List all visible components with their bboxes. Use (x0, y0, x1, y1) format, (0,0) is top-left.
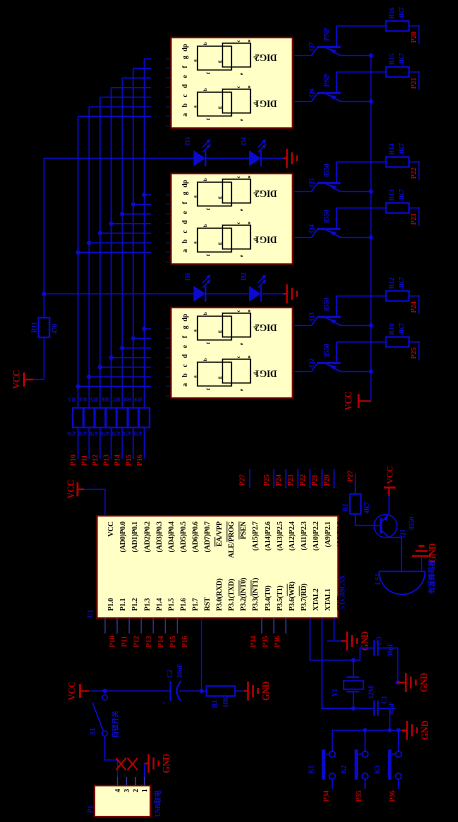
svg-text:GND: GND (335, 595, 344, 611)
power symbol VCC (input) (67, 682, 89, 701)
wire collector Q7 to display common (296, 55, 312, 57)
switch S1 self-lock (89, 695, 107, 736)
wire RST to reset node (201, 618, 203, 691)
transistor Q1 8550 (374, 514, 416, 538)
svg-text:(AD5)P0.5: (AD5)P0.5 (178, 521, 187, 552)
svg-text:R7: R7 (112, 396, 120, 403)
svg-text:c: c (181, 230, 189, 233)
svg-text:*: * (248, 86, 254, 89)
common pin DIG1 module C (293, 371, 296, 373)
svg-text:8550: 8550 (323, 209, 331, 223)
junction RST node (199, 689, 203, 693)
svg-text:470: 470 (134, 430, 143, 436)
wire collector Q4 to display common (296, 237, 312, 239)
wire K2 to common (364, 730, 366, 751)
power symbol VCC (digit driver rail) (344, 392, 371, 411)
common pin DIG1 module B (293, 237, 296, 239)
wire net P16 stub (143, 428, 145, 460)
no-connect cross pin3 (116, 758, 126, 770)
svg-text:b: b (204, 88, 209, 91)
svg-text:K2: K2 (340, 765, 348, 774)
svg-text:P25: P25 (262, 474, 271, 486)
svg-text:P13: P13 (102, 454, 111, 466)
wire D2 to ground (261, 293, 283, 295)
svg-text:Q5: Q5 (308, 178, 316, 187)
svg-text:P15: P15 (168, 636, 177, 648)
wire Q1 collector to buzzer (389, 538, 402, 561)
wire R11 to LED drops (43, 158, 45, 317)
junction XTAL2 crystal node (351, 658, 355, 662)
wire drop to DIG A pin (122, 77, 151, 79)
wire D4 to ground (261, 157, 283, 159)
transistor Q7 PNP (308, 26, 341, 56)
wire base Q3 to R12 (337, 295, 387, 297)
digit glyph DIG1 module A (194, 85, 260, 121)
svg-text:VCC: VCC (344, 392, 354, 411)
wire collector Q5 to display common (296, 191, 312, 193)
svg-text:P11: P11 (80, 454, 89, 466)
wire drop to DIG B pin (111, 223, 151, 225)
svg-text:VCC: VCC (385, 466, 395, 484)
svg-text:Q4: Q4 (308, 224, 316, 233)
wire C2 to RST node (179, 690, 202, 692)
svg-text:(AD0)P0.0: (AD0)P0.0 (118, 521, 127, 552)
wire R14 to net stub (409, 161, 419, 163)
ground for D2 (283, 284, 297, 303)
svg-text:P3.0(RXD): P3.0(RXD) (215, 578, 224, 611)
junction K2 common (363, 728, 367, 732)
svg-text:P21: P21 (409, 77, 418, 89)
wire K1 to net label (331, 779, 333, 789)
wire drop to D1 (44, 293, 194, 295)
connector P1 USB body (94, 786, 150, 817)
wire net P24 stub (418, 295, 420, 314)
svg-text:b: b (181, 373, 189, 377)
svg-text:P1.1: P1.1 (118, 598, 127, 611)
junction emitter rail (369, 323, 373, 327)
svg-text:*: * (248, 356, 254, 359)
svg-text:LS1: LS1 (374, 573, 382, 585)
pin d of module B (166, 220, 189, 233)
wire net P21 stub (321, 469, 323, 488)
wire net P14 stub (121, 428, 123, 460)
junction (142, 193, 146, 197)
junction crystal ground (396, 680, 400, 684)
svg-text:自锁开关: 自锁开关 (111, 711, 120, 738)
svg-text:P35: P35 (260, 636, 269, 648)
wire net P24 stub (285, 469, 287, 488)
svg-text:R10: R10 (388, 323, 396, 335)
wire base Q7 to R16 (337, 25, 387, 27)
resistor R3 470 (67, 396, 83, 436)
svg-text:e: e (181, 75, 189, 78)
wire segment bus P14 (121, 78, 123, 408)
svg-text:b: b (204, 312, 209, 315)
pin 2 of P1 (132, 777, 140, 792)
svg-text:PSEN: PSEN (239, 521, 248, 540)
junction (76, 384, 80, 388)
wire drop to D3 (44, 157, 194, 159)
transistor Q3 8550 (308, 296, 341, 326)
pin b of module C (166, 373, 189, 386)
power symbol VCC (MCU) (66, 480, 84, 499)
svg-text:P3.3(INT1): P3.3(INT1) (251, 577, 260, 611)
svg-text:d: d (181, 354, 189, 358)
pin P1.2 stub (128, 618, 130, 634)
svg-text:b: b (204, 42, 209, 45)
wire VCC rail (370, 56, 372, 402)
junction (109, 221, 113, 225)
svg-text:*: * (248, 222, 254, 225)
svg-text:d: d (181, 220, 189, 224)
svg-text:P24: P24 (409, 301, 418, 313)
junction (142, 327, 146, 331)
svg-text:(A8)P2.0: (A8)P2.0 (335, 521, 344, 547)
wire R1 to ground (235, 690, 244, 692)
wire drop to DIG C pin (144, 328, 151, 330)
wire C1 to button common (378, 708, 390, 730)
svg-text:GND: GND (419, 672, 429, 692)
svg-text:Q3: Q3 (308, 312, 316, 321)
capacitor C1 30pF (374, 695, 396, 716)
wire RST node to R1 (202, 690, 207, 692)
svg-text:R14: R14 (388, 143, 396, 155)
wire segment bus P12 (99, 97, 101, 408)
svg-text:R5: R5 (90, 396, 98, 403)
wire emitter Q3 to rail (341, 325, 372, 327)
svg-text:R9: R9 (134, 396, 142, 403)
ground for MCU GND pin (343, 631, 370, 651)
pin a of module C (166, 383, 189, 396)
svg-text:R12: R12 (388, 277, 396, 289)
svg-text:(AD4)P0.4: (AD4)P0.4 (166, 521, 175, 552)
power symbol VCC (buzzer) (384, 466, 396, 496)
svg-text:(A15)P2.7: (A15)P2.7 (251, 521, 260, 551)
svg-text:U1: U1 (87, 609, 95, 618)
svg-text:R15: R15 (388, 53, 396, 65)
wire K2 to net label (364, 779, 366, 789)
svg-text:8550: 8550 (323, 297, 331, 311)
resistor R11 470 (31, 318, 60, 338)
ground for P1 (145, 753, 172, 773)
svg-text:R2: R2 (342, 503, 350, 512)
svg-text:P24: P24 (274, 474, 283, 486)
svg-text:Y1: Y1 (331, 688, 339, 697)
wire net P25 stub (418, 341, 420, 360)
svg-text:P20: P20 (409, 31, 418, 43)
junction (76, 250, 80, 254)
svg-text:P34: P34 (248, 636, 257, 648)
wire XTAL2 to C3 (353, 648, 374, 660)
pin f of module C (166, 335, 189, 348)
svg-text:4K7: 4K7 (398, 276, 406, 289)
wire base Q2 to R10 (337, 341, 387, 343)
pin P1.5 stub (164, 618, 166, 634)
svg-text:b: b (181, 103, 189, 107)
pin dp of module A (166, 44, 189, 59)
svg-text:470: 470 (51, 323, 59, 334)
power symbol VCC (LED supply) (12, 370, 35, 389)
svg-text:P10: P10 (69, 454, 78, 466)
capacitor C3 30pF (374, 636, 394, 657)
svg-text:Q6: Q6 (308, 88, 316, 97)
7-segment display module B body (171, 174, 293, 265)
svg-text:P13: P13 (144, 636, 153, 648)
svg-text:P25: P25 (409, 347, 418, 359)
pin c of module B (166, 230, 189, 243)
svg-text:470: 470 (67, 430, 76, 436)
ground for D4 (283, 149, 297, 168)
resistor R7 470 (112, 396, 128, 436)
resistor R6 470 (101, 396, 117, 436)
digit glyph DIG2 module B (194, 175, 260, 211)
wire emitter Q2 to rail (341, 371, 372, 373)
7-segment display module C body (171, 308, 293, 399)
wire net P22 stub (309, 469, 311, 488)
svg-text:VCC: VCC (67, 682, 77, 701)
wire D1 to D2 (206, 293, 250, 295)
wire R10 to net stub (409, 341, 419, 343)
svg-text:P1.4: P1.4 (154, 598, 163, 611)
wire emitter Q6 to rail (341, 101, 372, 103)
pin 4 of P1 (114, 777, 122, 792)
svg-text:P1.2: P1.2 (130, 598, 139, 611)
svg-text:4K7: 4K7 (398, 188, 406, 201)
LED D2 (240, 272, 266, 302)
wire net P23 stub (418, 207, 420, 226)
wire drop to DIG A pin (111, 87, 151, 89)
svg-text:R11: R11 (31, 321, 39, 333)
pin d of module A (166, 84, 189, 97)
svg-text:(A9)P2.1: (A9)P2.1 (323, 521, 332, 547)
junction (87, 375, 91, 379)
svg-text:S1: S1 (89, 727, 97, 735)
svg-text:EA/VPP: EA/VPP (215, 521, 224, 547)
svg-text:(A10)P2.2: (A10)P2.2 (311, 521, 320, 551)
svg-text:K3: K3 (374, 765, 382, 774)
wire segment bus P10 (77, 116, 79, 407)
svg-text:4K7: 4K7 (398, 52, 406, 65)
resistor R13 4K7 (386, 188, 409, 213)
svg-text:DIG1: DIG1 (255, 368, 277, 378)
svg-text:P35: P35 (354, 790, 363, 802)
resistor R10 4K7 (386, 322, 409, 347)
svg-text:*: * (248, 310, 254, 313)
svg-text:XTAL2: XTAL2 (311, 588, 320, 611)
svg-text:b: b (204, 224, 209, 227)
pin e of module C (166, 345, 189, 358)
svg-text:PNP: PNP (323, 27, 331, 41)
pin e of module A (166, 75, 189, 88)
svg-text:(AD3)P0.3: (AD3)P0.3 (154, 521, 163, 552)
wire emitter Q7 to rail (341, 55, 372, 57)
crystal Y1 12M (331, 677, 376, 699)
svg-text:dp: dp (181, 180, 189, 188)
wire pin1 to ground (144, 764, 146, 778)
wire R16 to net stub (409, 25, 419, 27)
svg-text:R4: R4 (79, 396, 87, 403)
wire crystal right lead (352, 660, 354, 677)
junction (120, 346, 124, 350)
common pin DIG2 module C (293, 325, 296, 327)
svg-text:R3: R3 (68, 396, 76, 403)
svg-text:(A13)P2.5: (A13)P2.5 (275, 521, 284, 551)
svg-text:PNP: PNP (323, 73, 331, 87)
svg-text:dp: dp (181, 314, 189, 322)
svg-text:P1.6: P1.6 (178, 598, 187, 611)
svg-text:4K7: 4K7 (398, 322, 406, 335)
resistor R15 4K7 (386, 52, 409, 77)
svg-text:DIG2: DIG2 (255, 188, 277, 198)
pin P1.1 stub (116, 618, 118, 634)
wire net P11 stub (88, 428, 90, 460)
wire buzzer to ground (421, 556, 423, 562)
svg-text:Q2: Q2 (308, 358, 316, 367)
svg-text:P15: P15 (124, 454, 133, 466)
wire drop to DIG A pin (133, 67, 151, 69)
svg-text:P10: P10 (108, 636, 117, 648)
digit glyph DIG2 module A (194, 39, 260, 75)
svg-text:(AD2)P0.2: (AD2)P0.2 (142, 521, 151, 552)
svg-text:P36: P36 (272, 636, 281, 648)
svg-text:R6: R6 (101, 396, 109, 403)
svg-text:e: e (181, 345, 189, 348)
wire drop to DIG C pin (89, 376, 151, 378)
svg-text:P14: P14 (156, 636, 165, 648)
wire R15 to net stub (409, 71, 419, 73)
svg-text:VCC: VCC (12, 370, 22, 389)
wire drop to DIG C pin (78, 385, 151, 387)
wire net P13 stub (110, 428, 112, 460)
svg-text:P3.5(T1): P3.5(T1) (275, 585, 284, 611)
svg-text:P34: P34 (321, 790, 330, 802)
wire net P15 stub (132, 428, 134, 460)
svg-text:P3.1(TXD): P3.1(TXD) (227, 578, 236, 611)
microcontroller U1 STC89C5X body (97, 516, 338, 618)
svg-text:R8: R8 (123, 396, 131, 403)
wire base Q4 to R13 (337, 207, 387, 209)
svg-text:P12: P12 (132, 636, 141, 648)
ground for buzzer (412, 543, 438, 563)
svg-text:D1: D1 (184, 272, 192, 281)
ground for R1 (244, 681, 271, 701)
svg-text:P12: P12 (91, 454, 100, 466)
wire net P22 stub (418, 161, 420, 180)
no-connect cross pin2 (128, 758, 138, 770)
svg-text:C3: C3 (376, 636, 384, 645)
wire drop to DIG B pin (133, 203, 151, 205)
pin f of module A (166, 65, 189, 78)
svg-text:Q7: Q7 (308, 42, 316, 51)
common pin DIG2 module A (293, 55, 296, 57)
pin P34 stub (261, 618, 263, 634)
wire base Q6 to R15 (337, 71, 387, 73)
svg-text:(A11)P2.3: (A11)P2.3 (299, 521, 308, 550)
svg-text:C2: C2 (166, 669, 174, 678)
resistor R12 4K7 (386, 276, 409, 301)
wire drop to DIG C pin (122, 347, 151, 349)
svg-text:GND: GND (428, 543, 438, 563)
resistor R4 470 (78, 396, 94, 436)
svg-text:DIG2: DIG2 (255, 322, 277, 332)
svg-text:P3.4(T0): P3.4(T0) (263, 585, 272, 611)
wire base Q5 to R14 (337, 161, 387, 163)
wire net P27 stub (249, 469, 251, 488)
svg-text:30pF: 30pF (387, 643, 395, 657)
wire segment bus P16 (143, 59, 145, 408)
svg-text:P16: P16 (180, 636, 189, 648)
transistor Q2 8550 (308, 342, 341, 372)
svg-text:470: 470 (78, 430, 87, 436)
svg-text:R16: R16 (388, 7, 396, 19)
pushbutton K1 (307, 749, 335, 779)
pin d of module C (166, 354, 189, 367)
svg-text:P21: P21 (310, 474, 319, 486)
wire K3 to net label (398, 779, 400, 789)
resistor R5 470 (89, 396, 105, 436)
pin b of module B (166, 239, 189, 252)
wire drop to DIG B pin (122, 213, 151, 215)
LED D4 (240, 136, 266, 166)
wire net P25 stub (273, 469, 275, 488)
capacitor C2 10uF polarized (160, 664, 184, 705)
junction XTAL1 crystal node (351, 706, 355, 710)
MCU pin name labels (106, 521, 344, 611)
wire button common line (332, 729, 402, 731)
pin P1.0 stub (104, 618, 106, 634)
wire VCC pin (84, 489, 105, 516)
pin P35 stub (273, 618, 275, 634)
svg-text:10uF: 10uF (176, 664, 184, 678)
svg-text:P1.7: P1.7 (190, 598, 199, 611)
ground for crystal (398, 672, 429, 692)
wire GND pin (333, 618, 335, 641)
junction C1 return (388, 728, 392, 732)
svg-text:P1: P1 (87, 805, 95, 813)
wire net P23 stub (297, 469, 299, 488)
svg-text:GND: GND (420, 720, 430, 740)
wire segment bus P11 (88, 107, 90, 408)
pin dp of module C (166, 314, 189, 329)
wire D3 to D4 (206, 157, 250, 159)
wire emitter Q5 to rail (341, 191, 372, 193)
svg-text:P1.0: P1.0 (106, 598, 115, 611)
svg-text:GND: GND (261, 681, 271, 701)
svg-text:P3.2(INT0): P3.2(INT0) (239, 577, 248, 611)
svg-text:470: 470 (89, 430, 98, 436)
wire net P20 stub (333, 469, 335, 488)
pin c of module A (166, 94, 189, 107)
svg-text:dp: dp (181, 44, 189, 52)
svg-text:P22: P22 (409, 167, 418, 179)
buzzer LS1 (374, 560, 425, 594)
wire net P10 stub (77, 428, 79, 460)
svg-text:+: + (160, 701, 168, 705)
svg-text:(AD6)P0.6: (AD6)P0.6 (190, 521, 199, 552)
svg-text:c: c (181, 94, 189, 97)
junction (131, 202, 135, 206)
wire net P21 stub (418, 71, 420, 90)
junction node LED1 drop (42, 292, 46, 296)
svg-text:P20: P20 (322, 474, 331, 486)
wire net P27 stub (354, 474, 356, 490)
junction emitter rail (369, 99, 373, 103)
wire R2 to net stub (354, 490, 356, 494)
wire drop to DIG A pin (100, 96, 151, 98)
svg-text:b: b (204, 358, 209, 361)
ground for buttons (402, 720, 430, 740)
svg-text:P27: P27 (346, 470, 355, 482)
